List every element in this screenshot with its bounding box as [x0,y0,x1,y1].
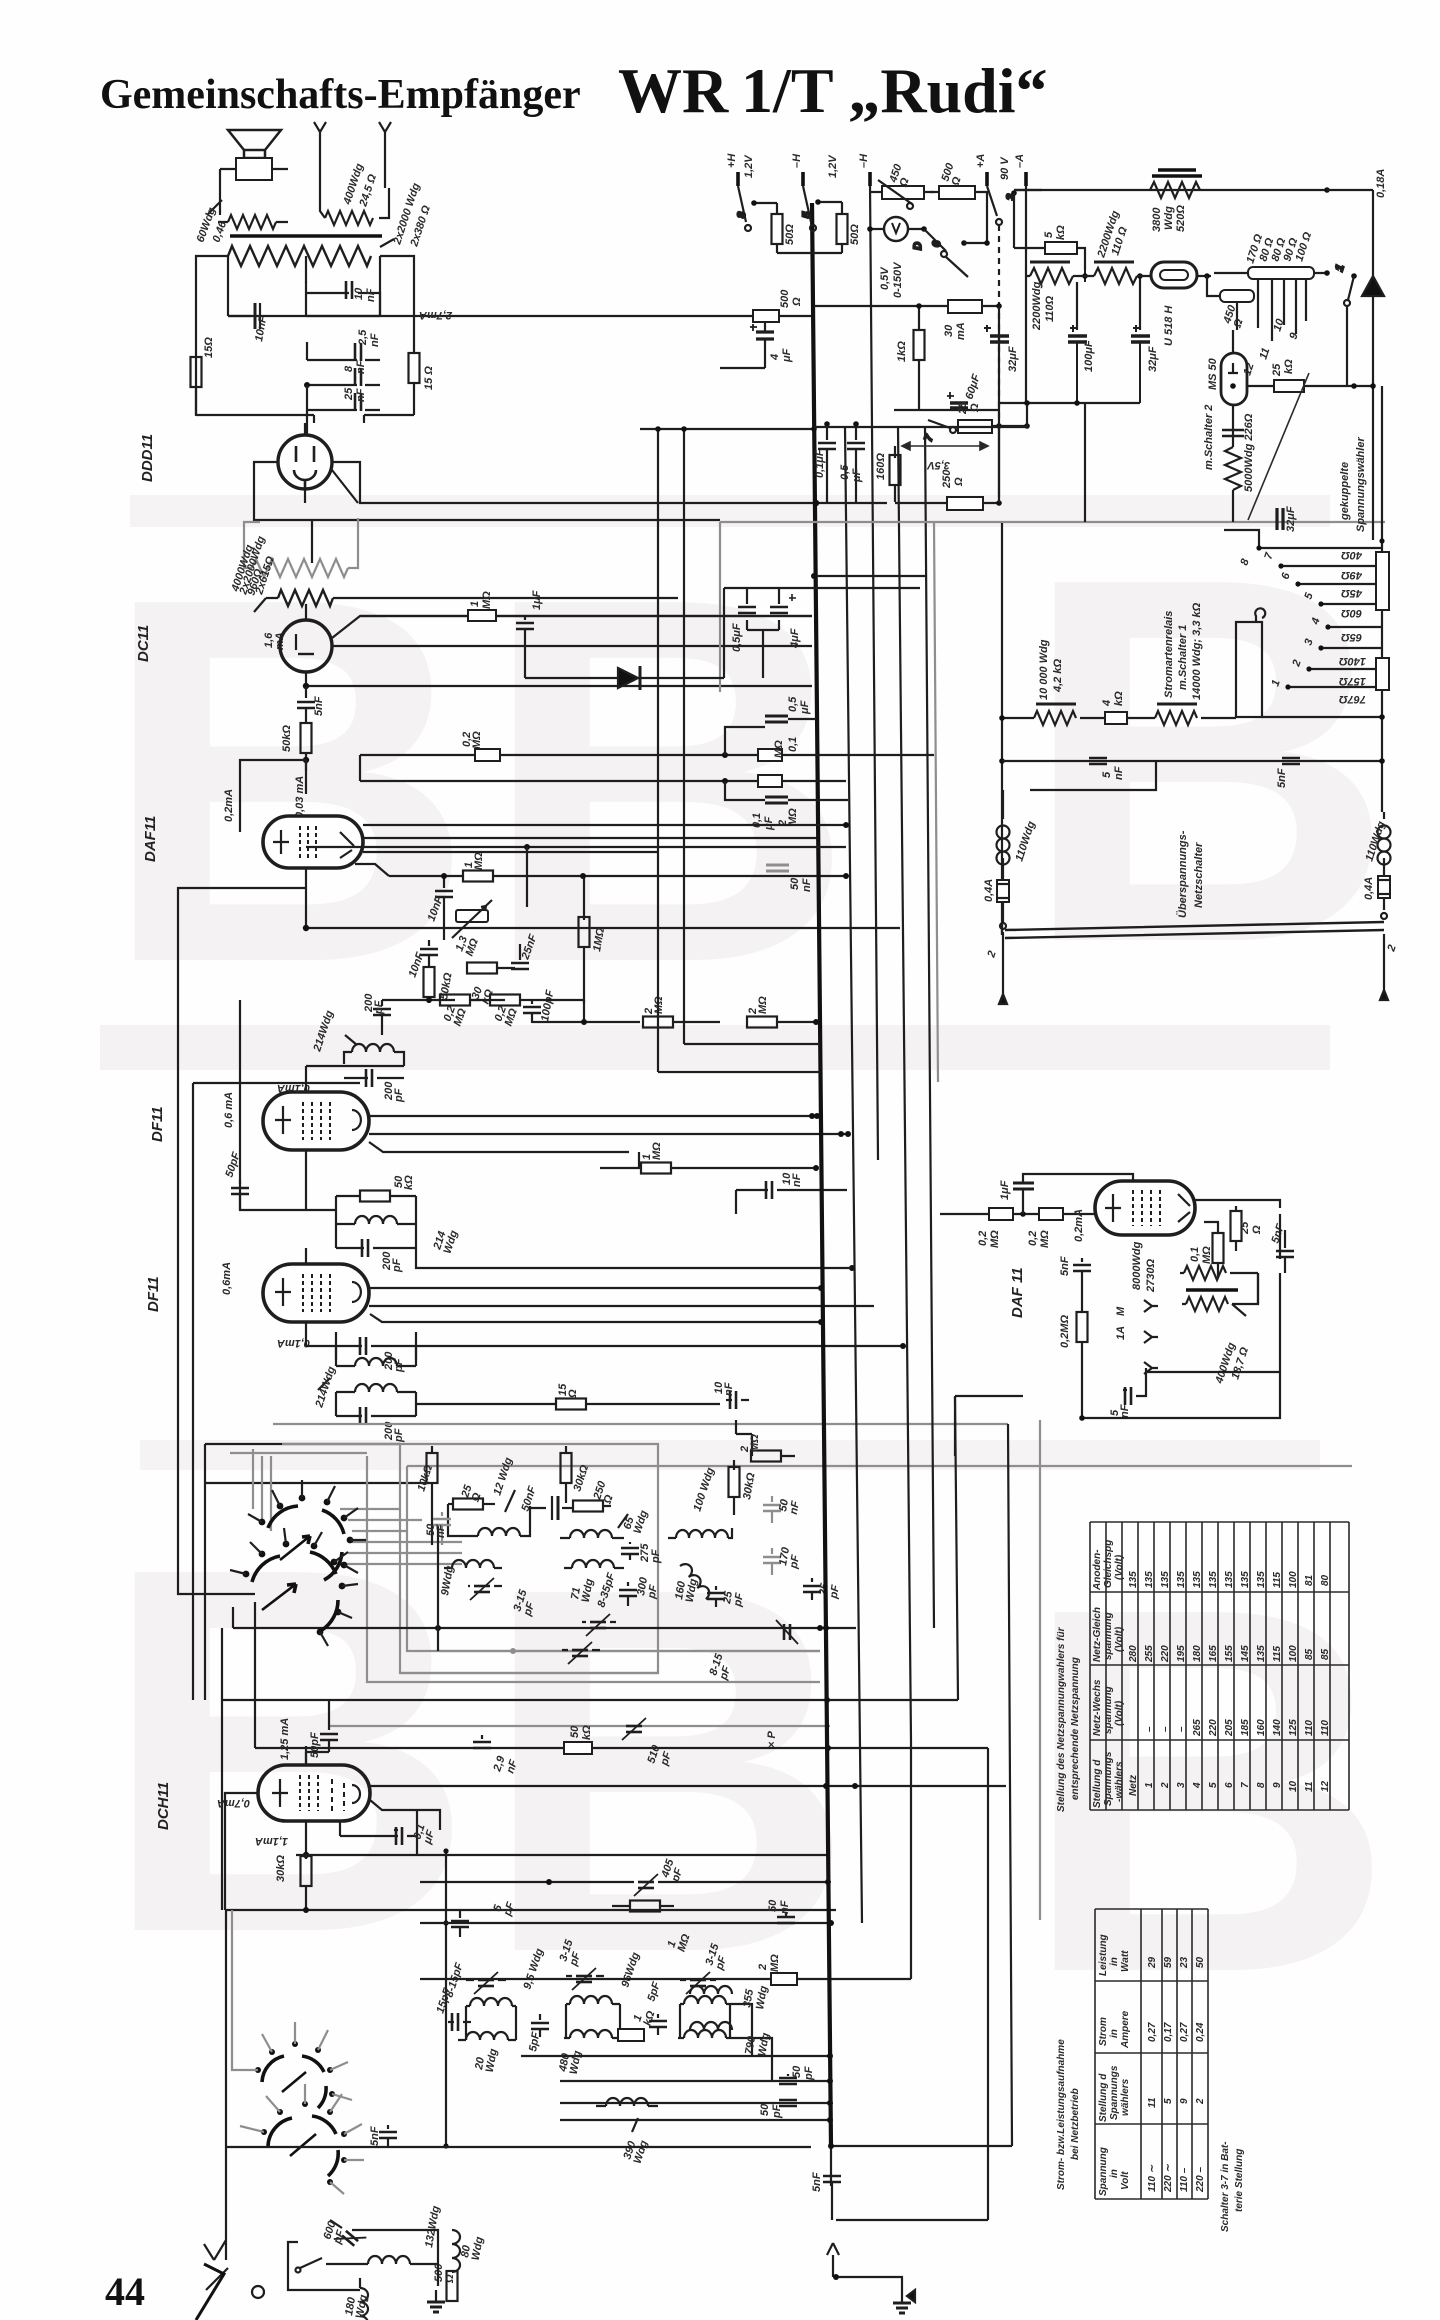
out stage frame wires [955,1200,1280,1456]
wire filter bottom [999,400,1140,522]
resistor stromartenrelais winding [1155,704,1236,725]
svg-text:9: 9 [1272,1782,1283,1788]
svg-text:4,2 kΩ: 4,2 kΩ [1052,659,1064,693]
svg-text:2,7mA: 2,7mA [419,309,453,321]
svg-text:0,27: 0,27 [1179,2022,1190,2042]
capacitor 5nF grid [1073,1258,1091,1283]
svg-text:nF: nF [355,388,367,402]
svg-text:–: – [1144,1726,1155,1732]
svg-text:0,18A: 0,18A [1375,169,1387,198]
svg-text:Strom: Strom [1098,2017,1109,2046]
tube DF11 first [263,1092,369,1150]
wire agc row [382,997,587,1025]
switch 1 right [1333,263,1356,386]
gray bus horizontal mid [720,522,1385,692]
wires DCH11 [225,1746,1006,1910]
svg-text:32μF: 32μF [1147,346,1159,372]
resistor 250 ohm [895,426,1002,510]
svg-text:12: 12 [1320,1780,1331,1792]
svg-text:30: 30 [943,324,955,337]
resistor 2x2000Wdg 2x615 ohm (gray) [244,518,358,577]
svg-text:(Volt): (Volt) [1114,1700,1125,1726]
svg-text:Ω: Ω [791,297,803,307]
svg-text:85: 85 [1304,1648,1315,1660]
svg-text:11: 11 [1304,1781,1315,1792]
bus vertical gray [934,522,938,1082]
svg-text:Überspannungs-: Überspannungs- [1176,830,1189,918]
svg-text:110 –: 110 – [1179,2167,1190,2192]
wire DC11 to right buses [303,616,812,689]
IF can 1: resistor 10k [427,1446,438,1545]
svg-text:0,03 mA: 0,03 mA [294,776,306,818]
speaker field winding 60Wdg 0,46 ohm [208,169,288,229]
svg-text:1: 1 [469,601,481,607]
bus vertical 5 [925,427,934,1628]
svg-text:DF11: DF11 [149,1106,166,1142]
capacitor 200pF IF1 [344,1069,404,1087]
bus horizontals upper [640,426,820,1072]
svg-text:59: 59 [1163,1956,1174,1968]
wire coil jogs [732,2004,772,2082]
mains switch double blade [999,913,1388,1004]
tube DDD11 [278,423,332,503]
coil 390Wdg [596,2098,658,2132]
coil 20Wdg [458,2032,516,2040]
svg-text:3800: 3800 [1151,207,1163,232]
cap 0,1uF osc [340,1810,417,1855]
svg-text:entsprechende Netzspannung: entsprechende Netzspannung [1070,1657,1081,1800]
svg-text:195: 195 [1176,1645,1187,1662]
resistor 15 ohm right [409,353,420,415]
svg-text:2,5: 2,5 [357,329,369,346]
IF can1 resistor 25ohm [448,1499,495,1510]
svg-text:50kΩ: 50kΩ [393,1175,415,1190]
svg-text:135: 135 [1144,1571,1155,1588]
svg-text:MΩ: MΩ [1039,1230,1051,1248]
label gekuppelte Spannungswaehler [1339,437,1367,532]
rotary switch deck 1 [268,1506,344,1580]
svg-text:185: 185 [1240,1719,1251,1736]
svg-text:140Ω: 140Ω [1339,655,1366,667]
svg-text:10 000 Wdg: 10 000 Wdg [1038,639,1050,700]
capacitor 0,1/0,5uF branch [725,716,816,755]
svg-text:1,2V: 1,2V [827,154,839,178]
svg-text:110: 110 [1304,1720,1315,1736]
capacitor 5nF bottom out [1123,1368,1146,1405]
trimmer 405pF [420,1874,831,1896]
svg-text:500: 500 [779,289,791,308]
wire -A down [1025,186,1027,404]
svg-text:nF: nF [355,360,367,374]
svg-text:1,2V: 1,2V [743,154,755,178]
svg-text:nF: nF [1113,766,1125,780]
svg-text:0,17: 0,17 [1163,2022,1174,2042]
IF can1 cap 50nF right [530,1496,572,1520]
coil 96Wdg [566,1996,620,2038]
tube MS50 [1221,330,1247,447]
svg-text:pF: pF [803,2066,815,2081]
primary 2x2000 Wdg 2x380 ohm [228,239,394,266]
coil 480Wdg [564,2030,618,2038]
IF can2 resistor 30k [561,1446,572,1503]
svg-text:11: 11 [1147,2097,1158,2108]
IF can1 coil 9Wdg [444,1560,502,1568]
coil 180Wdg [360,2278,368,2320]
coupling coil 600pF trimmer [330,2220,366,2254]
svg-text:nF: nF [365,288,377,302]
svg-text:2730Ω: 2730Ω [1145,1259,1157,1293]
wire osc rows to bus [420,1740,911,2123]
coil 214Wdg third [318,1346,416,1390]
svg-text:3: 3 [1176,1782,1187,1788]
trimmer 510pF [622,1718,646,1740]
resistor 0,2M out b [1039,1208,1095,1220]
svg-text:65Ω: 65Ω [1341,631,1362,643]
svg-text:Gleichspg: Gleichspg [1103,1540,1114,1588]
tube DC11 [280,604,332,686]
resistor 15 ohm row [416,1399,720,1410]
svg-text:15 Ω: 15 Ω [423,366,435,390]
svg-text:30kΩ: 30kΩ [275,1855,287,1882]
svg-text:2: 2 [757,1964,769,1971]
cap 50nF gray right [763,1496,781,1523]
svg-text:125: 125 [1288,1719,1299,1736]
capacitor 100uF [1068,270,1088,403]
svg-text:767Ω: 767Ω [1339,693,1366,705]
main bus vertical thick [812,203,831,2146]
table 2 Strom/Leistung [1056,1909,1208,2199]
top line 3 to fuse [1014,187,1373,193]
svg-text:110: 110 [1320,1720,1331,1736]
IF can2 cap 300pF [619,1582,637,1606]
IF can2 resistor 250 [573,1501,611,1512]
svg-text:nF: nF [801,878,813,892]
IF can1 coil 12Wdg [448,1490,530,1536]
svg-text:Stellung d: Stellung d [1092,1759,1103,1808]
svg-text:0,5μF: 0,5μF [731,623,743,652]
wire rows to right of DF11 [809,1113,869,1142]
rotary osc switch 2 [268,2116,338,2176]
svg-text:Leistung: Leistung [1098,1934,1109,1976]
svg-text:0,6mA: 0,6mA [221,1262,233,1295]
svg-text:kΩ: kΩ [1283,359,1295,374]
resistor 0,1M out [1204,1222,1224,1277]
pointer line [1248,373,1309,520]
resistor 2M osc [771,1973,797,1985]
rheostat 450 right [1207,276,1254,330]
gray feed vertical [1039,1420,1041,1920]
svg-text:kΩ: kΩ [1113,691,1125,706]
svg-text:Ampere: Ampere [1120,2010,1131,2049]
svg-text:4: 4 [769,354,781,361]
switch and coil 132Wdg [296,2256,439,2273]
svg-text:Ω: Ω [969,403,981,413]
resistor 0,2M b [490,995,530,1006]
wire DAF11 cathode down [178,888,900,1594]
output tube DAF11 right [1095,1181,1195,1235]
svg-text:23: 23 [1179,1956,1190,1969]
resistor 500ohm bottom [447,2271,458,2301]
svg-text:280: 280 [1128,1645,1139,1663]
capacitor 60uF [894,392,1000,410]
svg-text:MΩ: MΩ [1201,1246,1213,1264]
svg-text:in: in [1109,2169,1120,2178]
svg-text:0,4A: 0,4A [983,879,995,902]
resistor 1k osc [618,2029,644,2041]
coil 160Wdg vertical [680,1561,712,1599]
tube DCH11 [258,1765,370,1821]
svg-text:spannung: spannung [1103,1686,1114,1734]
svg-text:0,1: 0,1 [1189,1247,1201,1262]
resistor 0,2M out a [940,1208,1039,1220]
wire 5nF row [1002,758,1385,790]
coils at left of those labels [690,1986,732,2030]
tube DAF11 [263,816,363,888]
rheostat 450 ohm [870,180,934,209]
svg-text:mA: mA [955,322,967,340]
wire agc row 755 [360,749,934,781]
capacitor 200pF [373,1000,391,1035]
coil 214Wdg second [336,1216,416,1224]
coil 214Wdg IF1 top [344,1035,404,1066]
svg-text:10nF: 10nF [781,1172,803,1187]
resistor 1M osc [612,1901,674,1912]
svg-text:Ω: Ω [1251,1225,1263,1235]
svg-text:1A: 1A [1115,1326,1127,1340]
wires DF11a [240,1000,851,1210]
voltmeter [867,217,922,241]
svg-text:DCH11: DCH11 [155,1782,172,1830]
capacitor 200pF second [336,1224,416,1257]
svg-text:50: 50 [759,2103,771,2116]
table 1 Netzspannungswaehler [1056,1522,1349,1812]
svg-text:–A: –A [1014,154,1026,168]
svg-text:4μF: 4μF [789,628,801,649]
capacitor 200pF fourth [336,1407,416,1425]
resistor 2200Wdg 110 b [1085,262,1151,284]
capacitor 5nF relay a [1089,758,1107,764]
resistor 10000Wdg 4,2k [1002,704,1105,725]
svg-text:6: 6 [1224,1782,1235,1788]
svg-text:5: 5 [1043,231,1055,238]
coil 110Wdg left [997,790,1010,880]
svg-text:50: 50 [789,877,801,890]
svg-text:145: 145 [1240,1645,1251,1662]
wires bottom region [204,1910,264,2298]
svg-text:m.Schalter 2: m.Schalter 2 [1203,405,1215,470]
wire row 825 [363,822,849,828]
antenna mast [196,2264,224,2320]
svg-text:50Ω: 50Ω [784,224,796,245]
wire agc row 781 [360,775,846,787]
svg-text:M: M [1115,1306,1127,1316]
svg-text:4: 4 [1192,1782,1203,1789]
svg-text:0,5: 0,5 [787,696,799,712]
svg-text:Watt: Watt [1120,1950,1131,1972]
svg-text:135: 135 [1160,1571,1171,1588]
svg-text:nF: nF [779,1900,791,1914]
arrow 3,5V [902,442,988,450]
svg-text:0,5: 0,5 [839,464,851,480]
transformer DC11 coupling 4000Wdg 960 ohm [254,590,678,612]
wire row 847 [306,844,846,907]
svg-text:Stromartenrelais: Stromartenrelais [1163,611,1175,698]
svg-text:Stellung d: Stellung d [1098,2073,1109,2122]
capacitor 8nF [304,359,380,388]
resistor 50k vertical [424,967,435,1003]
svg-text:DC11: DC11 [135,625,152,662]
svg-text:× P: × P [766,1731,778,1748]
svg-text:μF: μF [763,816,775,831]
svg-text:8000Wdg: 8000Wdg [1131,1241,1143,1290]
svg-text:(Volt): (Volt) [1114,1554,1125,1580]
tube DF11 second [263,1264,369,1322]
cap 5pF c [649,2014,667,2035]
svg-text:0,5V: 0,5V [879,266,891,290]
osc switch wires gray [232,1910,364,2194]
svg-text:10nF: 10nF [713,1381,735,1396]
svg-text:5nF: 5nF [811,2172,823,2192]
cap 25pF right [803,1578,821,1600]
box outline bottom [288,2230,438,2290]
svg-text:220: 220 [1160,1645,1171,1663]
svg-text:6: 6 [931,240,943,247]
IF can2 coil 65Wdg [560,1514,628,1538]
svg-text:8: 8 [343,365,355,372]
capacitor 25nF [511,944,529,970]
svg-text:220: 220 [1208,1719,1219,1737]
rotary switch deck 2 [252,1552,338,1630]
cap 5nF osc [379,2125,397,2146]
svg-text:25: 25 [957,401,969,415]
svg-text:0,6 mA: 0,6 mA [223,1092,235,1128]
svg-text:0,2MΩ: 0,2MΩ [461,731,483,749]
fuse diode 0,18A [1362,190,1384,540]
svg-text:Netz-Wechs: Netz-Wechs [1092,1679,1103,1736]
svg-text:135: 135 [1176,1571,1187,1588]
svg-text:1kΩ: 1kΩ [896,341,908,362]
svg-text:kΩ: kΩ [581,1725,593,1740]
svg-text:MS 50: MS 50 [1207,357,1219,390]
caps 0,5uF 4uF [724,588,920,678]
svg-text:10: 10 [353,287,365,300]
resistor 4k [1105,712,1155,724]
resistor 0,2M grid [1077,1283,1088,1418]
svg-text:10: 10 [1288,1780,1299,1792]
transformer core [230,234,382,238]
svg-text:32μF: 32μF [1285,506,1297,532]
rotary osc switch 1 [262,2056,326,2108]
cap 10nF right mid [726,1391,749,1409]
svg-text:bei Netzbetrieb: bei Netzbetrieb [1070,2088,1081,2160]
svg-text:in: in [1109,2029,1120,2038]
relay box [1002,608,1385,935]
svg-text:25: 25 [343,387,355,401]
resistor 2M right mid [736,1420,795,1462]
tap labels upside down [1339,549,1366,705]
node A top left box [196,256,414,416]
svg-text:1μF: 1μF [999,1180,1011,1200]
bus vertical 2 [845,427,862,1923]
coil right b [678,2030,732,2038]
svg-text:115: 115 [1272,1646,1283,1662]
trimmer 3-15pF osc2 [566,1968,604,1990]
svg-text:0,24: 0,24 [1195,2022,1206,2042]
svg-text:MΩ: MΩ [769,1954,781,1972]
output transformer 400Wdg 18,7 [1186,1288,1238,1292]
voltage selector taps [1224,530,1381,690]
capacitor 50pF grid2 [231,1180,249,1210]
svg-text:–H: –H [858,153,870,168]
wires DAF11 outputs [355,838,818,876]
svg-text:50kΩ: 50kΩ [281,725,293,752]
capacitors 50pF pair [779,2074,797,2106]
resistor 3800Wdg 520 ohm [1152,170,1202,176]
svg-text:0,7mA: 0,7mA [217,1797,250,1809]
svg-text:160: 160 [1256,1719,1267,1736]
svg-text:4: 4 [1101,700,1113,707]
capacitor 10nF row [736,1181,847,1214]
svg-text:50: 50 [569,1725,581,1738]
label ueberspannungs netzschalter [1176,830,1205,918]
svg-text:0,2mA: 0,2mA [223,789,235,822]
capacitor 50nF osc [777,1912,795,1923]
svg-text:5: 5 [1163,2098,1174,2104]
resistor 50 ohm b [814,202,848,253]
resistor 500 ohm top [930,186,987,242]
svg-text:0,1: 0,1 [787,737,799,752]
switch +A [987,186,1042,424]
svg-text:165: 165 [1208,1645,1219,1662]
svg-text:80: 80 [1320,1574,1331,1586]
band switch wire bundle rows [230,1424,1008,1564]
ground right of antenna [823,2146,915,2313]
note Schalter 3-7 [1220,2141,1245,2232]
wire 0,2mA loop [240,760,306,832]
coil 9,5Wdg [466,1998,516,2040]
svg-text:–: – [1176,1726,1187,1732]
trimmer 8-15pF center [562,1642,600,1664]
wire vertical 1021 [999,523,1005,935]
tap resistor 170/80/80/90/100 [1214,267,1330,341]
svg-text:157Ω: 157Ω [1339,675,1366,687]
capacitor 0,5uF bus b [847,421,865,502]
switch 5 [801,186,842,231]
svg-text:50pF: 50pF [309,1732,321,1758]
svg-text:90 V: 90 V [999,156,1011,180]
svg-text:0,2: 0,2 [1027,1231,1039,1246]
svg-text:5000Wdg 226Ω: 5000Wdg 226Ω [1243,413,1255,492]
trimmer right [776,1620,798,1644]
svg-text:2: 2 [1195,2098,1206,2105]
svg-text:1,25 mA: 1,25 mA [279,1718,291,1760]
capacitor 2,5nF [307,342,380,361]
battery terminal +H 1,2V [738,172,1026,186]
svg-text:14000 Wdg; 3,3 kΩ: 14000 Wdg; 3,3 kΩ [1191,602,1203,700]
capacitor 0,1uF bus a [818,421,836,502]
resistor 500 ohm audio line [753,310,814,322]
svg-text:25: 25 [1239,1221,1251,1235]
capacitor 32uF b [1131,273,1150,403]
IF can2 coil 71Wdg [564,1560,624,1568]
svg-text:μF: μF [799,700,811,715]
svg-text:U 518 H: U 518 H [1163,305,1175,346]
diode detector [360,588,812,690]
svg-text:2200Wdg: 2200Wdg [1031,281,1043,331]
svg-text:265: 265 [1192,1719,1203,1737]
svg-text:spannung: spannung [1103,1612,1114,1660]
svg-text:9: 9 [1179,2098,1190,2104]
